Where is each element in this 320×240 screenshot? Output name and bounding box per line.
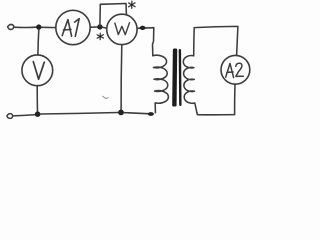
pencil tick bbox=[103, 96, 108, 98]
label A1 bbox=[62, 19, 79, 37]
label W bbox=[115, 23, 130, 35]
wire X2 to node C bbox=[13, 115, 36, 116]
transformer secondary winding bbox=[183, 56, 197, 113]
node D (junction dot, wattmeter return) bbox=[118, 110, 124, 116]
wire W to primary top bbox=[137, 28, 154, 56]
label V bbox=[33, 62, 44, 80]
ammeter A1 bbox=[56, 10, 90, 44]
wire node A to voltmeter bbox=[37, 30, 40, 55]
blob at rail end bbox=[148, 112, 154, 116]
wire V bottom bbox=[36, 86, 38, 113]
asterisk (current-coil polarity mark) bbox=[97, 33, 103, 39]
transformer core bar 1 bbox=[172, 48, 177, 106]
wire A2 bottom bbox=[234, 84, 236, 114]
wire voltage-coil loop over W bbox=[100, 4, 127, 27]
junction blob on W output wire bbox=[140, 26, 146, 30]
node B (junction dot, wattmeter * node) bbox=[97, 24, 102, 29]
transformer core bar 2 bbox=[179, 49, 182, 106]
wire A1 to node B bbox=[90, 26, 97, 28]
terminal X1 (top-left input) bbox=[8, 24, 14, 29]
wattmeter W bbox=[107, 14, 137, 44]
wire node A to A1 bbox=[42, 26, 56, 28]
wire node B to W bbox=[103, 27, 107, 28]
wire secondary bottom bbox=[197, 113, 235, 115]
node A (junction dot, voltmeter tap top) bbox=[36, 24, 41, 29]
transformer primary winding bbox=[153, 55, 169, 112]
asterisk (voltage-coil polarity mark) bbox=[129, 1, 136, 8]
wire W bottom (voltage coil return) bbox=[120, 45, 123, 112]
wire secondary top loop to A2 bbox=[194, 26, 238, 55]
wire node D to primary bottom bbox=[124, 113, 151, 114]
terminal X2 (bottom-left input) bbox=[7, 114, 13, 119]
node C (junction dot, voltmeter tap bottom) bbox=[35, 111, 41, 117]
wire node C to node D bbox=[40, 113, 118, 115]
label A2 bbox=[226, 63, 244, 77]
ammeter A2 bbox=[221, 55, 250, 84]
wire X1 to node A bbox=[14, 26, 36, 28]
voltmeter V bbox=[22, 55, 53, 86]
